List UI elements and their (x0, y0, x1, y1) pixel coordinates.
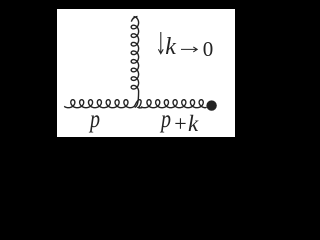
label p (90, 106, 100, 134)
arrow right (k -> 0) (181, 47, 197, 52)
blob (effective vertex) (206, 100, 216, 110)
label k (after down arrow) (165, 34, 176, 61)
arrow down (soft gluon momentum) (158, 32, 163, 54)
white figure background box (57, 9, 235, 137)
gluon line p / p+k : horizontal coil with junction loop (64, 100, 206, 108)
label k (of p+k) (188, 111, 198, 137)
label 0 (203, 37, 214, 62)
label p (of p+k) (161, 106, 171, 134)
gluon k : vertical coil (131, 17, 138, 92)
label + (of p+k) (174, 111, 186, 137)
wire: vertical strand descending into junction (135, 92, 139, 108)
